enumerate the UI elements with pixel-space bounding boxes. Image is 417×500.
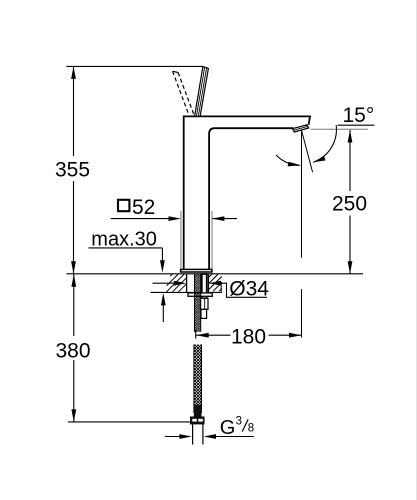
svg-text:Ø34: Ø34 xyxy=(229,278,269,301)
dimension 355 xyxy=(55,66,90,273)
fixing nut xyxy=(200,298,208,309)
hose connector nut xyxy=(190,417,204,424)
hatch right edge line xyxy=(220,282,222,292)
svg-text:15°: 15° xyxy=(343,104,375,127)
dimension 180 xyxy=(196,325,302,348)
svg-text:180: 180 xyxy=(231,325,266,348)
spout underside inner contour xyxy=(209,128,293,269)
tilted 15 degree stream line xyxy=(302,130,313,172)
svg-text:3: 3 xyxy=(236,415,242,427)
svg-text:250: 250 xyxy=(332,193,367,216)
dimension 250 xyxy=(311,129,368,274)
aerator at spout tip xyxy=(292,125,308,132)
dimension square 52 xyxy=(111,196,237,221)
washer under counter xyxy=(188,293,212,296)
dimension 380 xyxy=(56,274,91,422)
dimension max.30 xyxy=(88,228,165,322)
dimension diameter 34 xyxy=(153,278,270,301)
base plate extension lines xyxy=(180,211,182,269)
flexible braided hose xyxy=(194,345,202,418)
15 degree label and reference line xyxy=(338,104,375,127)
top extension line xyxy=(66,65,203,67)
threaded rod / upper hose xyxy=(195,274,201,332)
hole wall right xyxy=(207,274,209,293)
lever (solid position) xyxy=(195,67,209,117)
dimension G 3/8 xyxy=(165,415,254,439)
hole wall left xyxy=(186,274,188,293)
svg-text:380: 380 xyxy=(56,339,91,362)
svg-text:max.30: max.30 xyxy=(91,228,157,250)
svg-text:355: 355 xyxy=(55,159,90,182)
threaded stud right of hose xyxy=(202,274,207,298)
faucet body outline xyxy=(184,116,310,269)
svg-text:8: 8 xyxy=(248,423,254,435)
countertop top surface line xyxy=(66,273,363,275)
countertop hatching right block xyxy=(208,274,222,291)
G3/8 pipe end xyxy=(193,424,203,445)
angle arc right xyxy=(313,125,336,162)
angle arc left xyxy=(276,155,301,166)
fixing nut lower step xyxy=(201,309,207,318)
countertop hatching left block xyxy=(167,274,187,292)
svg-text:52: 52 xyxy=(132,196,155,219)
lever (dashed alternate position) xyxy=(173,71,195,116)
countertop bottom surface line xyxy=(151,291,223,293)
base plate (escutcheon) xyxy=(181,269,212,272)
vertical stream line lower xyxy=(301,289,303,337)
bottom extension line xyxy=(68,421,191,423)
svg-text:G: G xyxy=(220,417,236,439)
vertical stream line upper xyxy=(301,131,303,258)
